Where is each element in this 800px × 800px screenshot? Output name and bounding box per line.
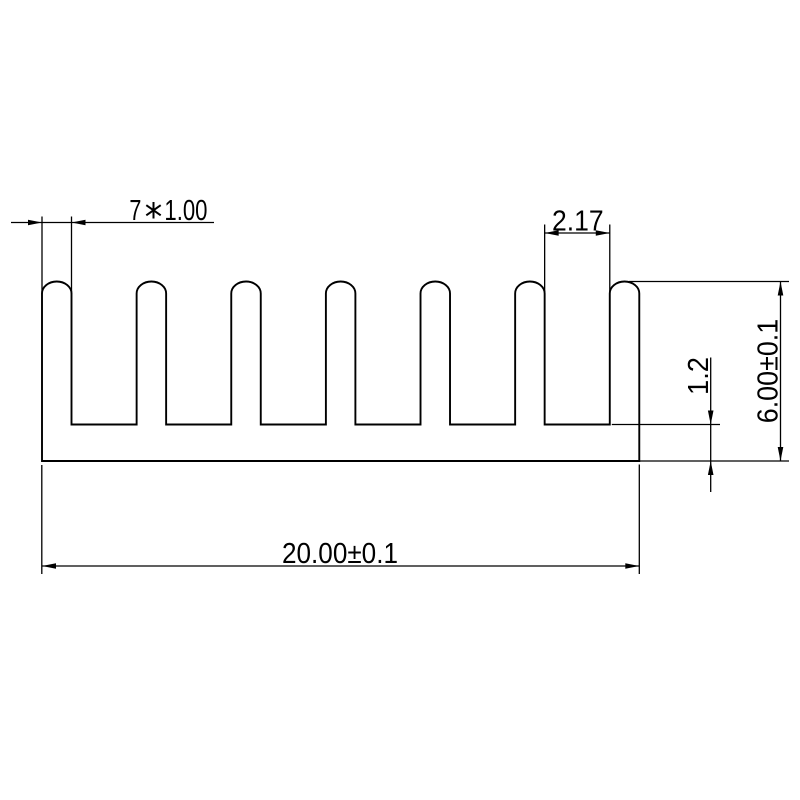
dimension 20.00±0.1 : left arrowhead (inside, pointing left): [42, 563, 56, 569]
dimension 7*1.00 : right arrowhead (outside, pointing left): [72, 220, 86, 226]
dimension 7*1.00 : left arrowhead (outside, pointing right): [28, 220, 42, 226]
dimension 7*1.00 : dimension line: [11, 222, 214, 224]
svg-text:6.00±0.1: 6.00±0.1: [753, 319, 785, 424]
dimension 6.00±0.1 : text (rotated): [753, 319, 785, 424]
dimension 20.00±0.1 : right arrowhead (inside, pointing right): [625, 563, 639, 569]
dimension 2.17 : text: [552, 205, 604, 237]
dimension 2.17 : extension line left (x=544.65): [544, 225, 546, 296]
dimension 1.2 : text (rotated): [683, 357, 715, 395]
dimension 2.17 : dimension line: [545, 232, 610, 234]
dimension 20.00±0.1 : dimension line: [42, 565, 639, 567]
svg-text:7: 7: [129, 195, 141, 227]
svg-text:20.00±0.1: 20.00±0.1: [282, 538, 398, 570]
svg-text:1.2: 1.2: [683, 357, 715, 395]
dimension 7*1.00 : star glyph: [146, 202, 160, 219]
svg-text:2.17: 2.17: [552, 205, 604, 237]
dimension 2.17 : right arrowhead (inside, pointing right): [596, 230, 610, 236]
dimension 6.00±0.1 : top extension line: [629, 281, 789, 283]
dimension 2.17 : extension line right (x=609.78): [609, 225, 611, 296]
dimension 1.2 : lower arrowhead (pointing up at y=461): [708, 461, 714, 475]
dimension 7*1.00 : extension line left (x=42): [41, 217, 43, 295]
dimension 6.00±0.1 : bottom extension line: [639, 460, 789, 462]
dimension 20.00±0.1 : extension line right (x=639.3): [638, 465, 640, 575]
dimension 1.2 : dimension line (vertical, through): [710, 358, 712, 493]
dimension 6.00±0.1 : bottom arrowhead (pointing down): [778, 447, 784, 461]
dimension 20.00±0.1 : text: [282, 538, 398, 570]
dimension 6.00±0.1 : top arrowhead (pointing up): [778, 282, 784, 296]
dimension 7*1.00 : extension line right (x=71.5): [71, 217, 73, 295]
dimension 7*1.00 : text "1.00": [164, 195, 207, 227]
svg-text:1.00: 1.00: [164, 195, 207, 227]
dimension 2.17 : left arrowhead (inside, pointing left): [545, 230, 559, 236]
dimension 6.00±0.1 : dimension line: [780, 282, 782, 462]
dimension 7*1.00 : text "7": [129, 195, 141, 227]
dimension 1.2 : extension line (y=424.5): [612, 424, 720, 426]
heatsink profile outline: [42, 281, 639, 461]
dimension 1.2 : upper arrowhead (pointing down at y=424.5): [708, 411, 714, 425]
dimension 20.00±0.1 : extension line left (x=41.8): [41, 465, 43, 574]
